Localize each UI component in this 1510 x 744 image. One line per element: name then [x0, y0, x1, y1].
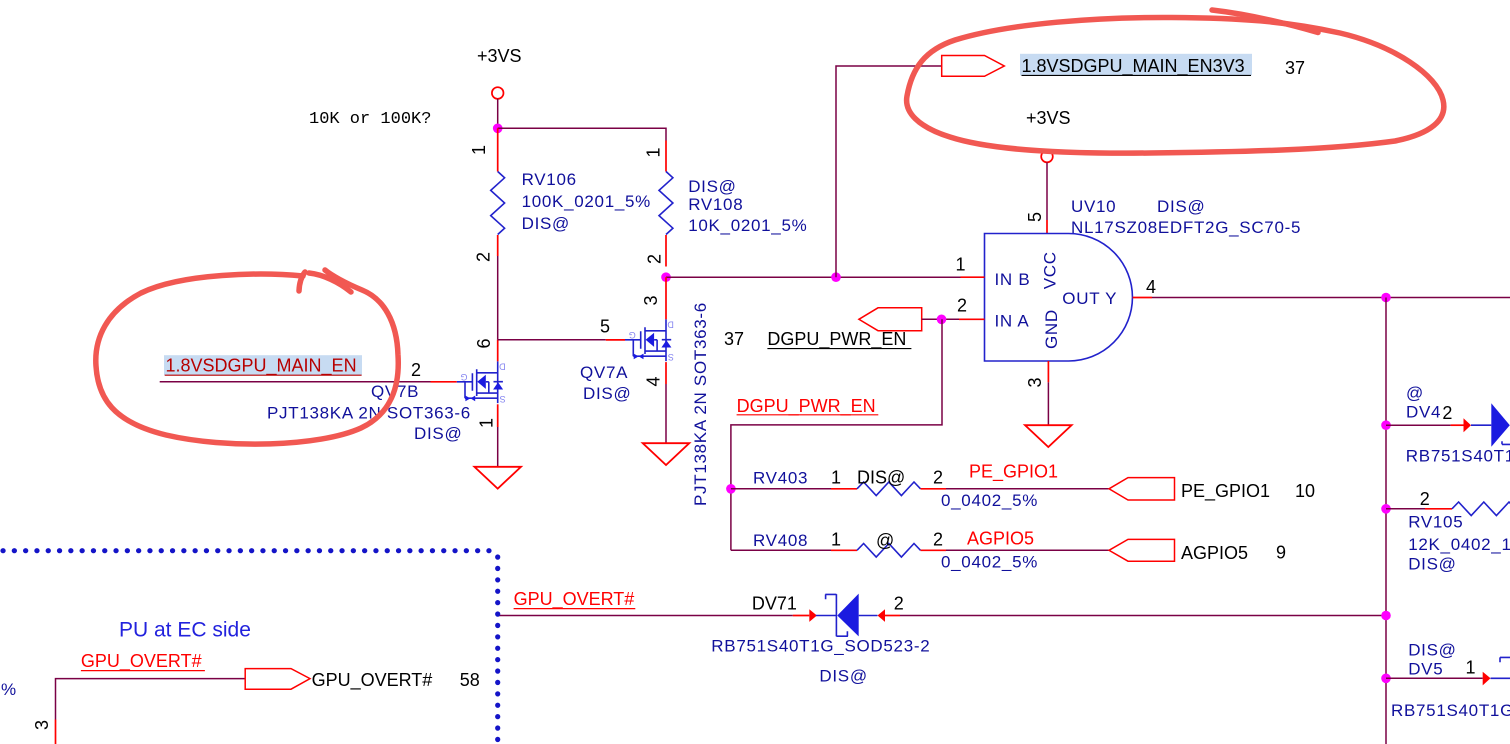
wire — [1047, 382, 1049, 425]
svg-text:DIS@: DIS@ — [1408, 555, 1456, 574]
svg-text:1: 1 — [956, 255, 966, 275]
wire — [498, 128, 666, 140]
svg-text:DV5: DV5 — [1408, 660, 1443, 679]
diode DV71 — [711, 594, 930, 686]
port PE_GPIO1 — [1109, 478, 1315, 502]
svg-text:2: 2 — [957, 296, 967, 316]
annotation tail (left) — [309, 273, 351, 292]
diode DV5 — [1386, 641, 1510, 721]
svg-text:NL17SZ08EDFT2G_SC70-5: NL17SZ08EDFT2G_SC70-5 — [1071, 218, 1301, 237]
svg-text:58: 58 — [460, 670, 480, 690]
svg-text:RB751S40T1G_SOD523-2: RB751S40T1G_SOD523-2 — [1406, 447, 1510, 466]
svg-text:2_5%: 2_5% — [0, 680, 17, 699]
svg-text:DIS@: DIS@ — [857, 468, 905, 488]
svg-text:@: @ — [876, 531, 894, 551]
svg-text:PU at EC side: PU at EC side — [119, 619, 251, 642]
svg-text:2: 2 — [933, 468, 943, 488]
wire OUT net — [1152, 297, 1510, 299]
svg-text:PE_GPIO1: PE_GPIO1 — [1181, 481, 1270, 502]
svg-text:4: 4 — [1146, 277, 1156, 297]
svg-text:UV10: UV10 — [1071, 197, 1116, 216]
blue dotted partition (vertical) — [495, 557, 500, 743]
svg-text:IN B: IN B — [995, 270, 1031, 289]
svg-text:RB751S40T1G_SOD523-2: RB751S40T1G_SOD523-2 — [711, 637, 930, 656]
junction — [831, 272, 841, 282]
blue dotted partition (horizontal) — [3, 548, 498, 553]
svg-text:1.8VSDGPU_MAIN_EN3V3: 1.8VSDGPU_MAIN_EN3V3 — [1022, 56, 1245, 77]
svg-text:2: 2 — [645, 254, 665, 264]
annotation ellipse (left) — [96, 270, 398, 444]
svg-text:IN A: IN A — [995, 312, 1030, 331]
pin 1 IN B — [956, 255, 985, 278]
svg-text:GPU_OVERT#: GPU_OVERT# — [312, 670, 433, 691]
ground — [474, 467, 521, 489]
pin 2 IN A — [957, 296, 985, 320]
svg-text:DIS@: DIS@ — [688, 177, 736, 196]
svg-text:1: 1 — [469, 145, 489, 155]
wire — [497, 99, 499, 126]
net DGPU_PWR_EN label — [737, 396, 879, 417]
wire — [946, 488, 1109, 490]
svg-text:DV4: DV4 — [1406, 403, 1441, 422]
svg-text:RV105: RV105 — [1408, 513, 1463, 532]
wire — [497, 427, 499, 467]
svg-text:2: 2 — [1420, 489, 1430, 509]
resistor R1 RV403 — [731, 462, 1058, 511]
svg-text:2: 2 — [894, 594, 904, 614]
pin 4 OUT — [1133, 277, 1156, 298]
junction — [726, 484, 736, 494]
svg-text:GPU_OVERT#: GPU_OVERT# — [81, 651, 202, 672]
svg-text:2: 2 — [933, 530, 943, 550]
wire — [56, 679, 246, 720]
svg-text:1: 1 — [831, 468, 841, 488]
pin 3 GND — [1025, 361, 1048, 388]
svg-text:PJT138KA 2N SOT363-6: PJT138KA 2N SOT363-6 — [691, 302, 710, 506]
wire gate QV7B — [160, 381, 431, 383]
wire — [731, 319, 942, 550]
wire — [665, 384, 667, 443]
wire — [836, 66, 942, 277]
svg-text:4: 4 — [644, 376, 664, 386]
port 1.8VSDGPU_MAIN_EN3V3 — [942, 54, 1305, 78]
junction — [661, 272, 671, 282]
svg-text:2: 2 — [411, 360, 421, 380]
svg-text:1: 1 — [477, 418, 497, 428]
svg-text:6: 6 — [474, 338, 494, 348]
svg-text:AGPIO5: AGPIO5 — [1181, 543, 1248, 563]
svg-text:1: 1 — [644, 147, 664, 157]
svg-text:RV108: RV108 — [688, 195, 743, 214]
svg-text:GPU_OVERT#: GPU_OVERT# — [514, 589, 635, 610]
svg-text:2: 2 — [1442, 403, 1452, 423]
power +3VS (right) — [1026, 108, 1071, 162]
svg-text:5: 5 — [1025, 212, 1045, 222]
pin 5 — [1025, 212, 1047, 234]
net GPU_OVERT# label (bottom left) — [81, 651, 205, 672]
svg-text:10K or 100K?: 10K or 100K? — [309, 110, 431, 129]
junction — [1381, 674, 1391, 684]
svg-text:DGPU_PWR_EN: DGPU_PWR_EN — [767, 329, 906, 350]
resistor RV108 — [644, 141, 808, 267]
ground — [1025, 425, 1072, 447]
wire — [922, 318, 959, 320]
svg-text:DIS@: DIS@ — [583, 384, 631, 403]
svg-text:RV403: RV403 — [753, 469, 808, 488]
diode DV4 — [1386, 384, 1510, 466]
junction — [937, 315, 947, 325]
wire VCC — [1046, 162, 1048, 220]
svg-text:12K_0402_1%: 12K_0402_1% — [1408, 535, 1510, 554]
wire — [900, 615, 1386, 617]
svg-text:DV71: DV71 — [752, 594, 797, 614]
svg-text:3: 3 — [641, 295, 661, 305]
svg-text:100K_0201_5%: 100K_0201_5% — [522, 192, 651, 211]
port AGPIO5 — [1109, 539, 1286, 563]
wire bus to IN B — [666, 276, 961, 278]
wire to QV7A gate — [498, 339, 625, 341]
port DGPU_PWR_EN (input) — [724, 308, 922, 350]
svg-text:DIS@: DIS@ — [414, 424, 462, 443]
wire main vertical (right) — [1385, 298, 1387, 744]
svg-text:VCC: VCC — [1041, 251, 1060, 289]
svg-text:DIS@: DIS@ — [1408, 641, 1456, 660]
transistor Q2 QV7B — [267, 338, 506, 443]
junction — [1381, 420, 1391, 430]
net GPU_OVERT# label (mid) — [514, 589, 636, 610]
port GPU_OVERT# (output) — [245, 669, 480, 691]
svg-text:3: 3 — [1025, 377, 1045, 387]
svg-text:RV106: RV106 — [522, 170, 577, 189]
resistor RV408 — [731, 529, 1038, 572]
resistor RV105 — [1386, 489, 1510, 574]
svg-text:DIS@: DIS@ — [1157, 197, 1205, 216]
svg-text:5: 5 — [600, 317, 610, 337]
svg-text:GND: GND — [1042, 309, 1061, 349]
junction — [1381, 504, 1391, 514]
svg-text:37: 37 — [724, 329, 744, 349]
svg-text:OUT Y: OUT Y — [1062, 289, 1117, 308]
wire — [497, 256, 499, 340]
svg-text:QV7A: QV7A — [580, 363, 628, 382]
svg-text:PJT138KA 2N SOT363-6: PJT138KA 2N SOT363-6 — [267, 404, 471, 423]
op-amp U1 AND gate UV10 — [985, 197, 1302, 361]
svg-text:DIS@: DIS@ — [819, 667, 867, 686]
junction — [1381, 293, 1391, 303]
svg-text:+3VS: +3VS — [1026, 108, 1071, 128]
svg-text:10: 10 — [1295, 481, 1315, 501]
svg-text:+3VS: +3VS — [477, 46, 522, 66]
annotation ellipse end hook (left) — [299, 272, 305, 291]
svg-text:3: 3 — [32, 720, 52, 730]
annotation scribble (right) — [1212, 10, 1318, 33]
svg-text:DGPU_PWR_EN: DGPU_PWR_EN — [737, 396, 876, 417]
svg-text:9: 9 — [1276, 543, 1286, 563]
junction — [1381, 611, 1391, 621]
svg-text:1: 1 — [831, 530, 841, 550]
pin 3 (bottom left) — [32, 720, 56, 744]
net 1.8VSDGPU_MAIN_EN label — [164, 355, 362, 376]
svg-text:1: 1 — [1466, 658, 1476, 678]
resistor RV106 — [469, 128, 651, 262]
wire — [946, 549, 1109, 551]
svg-text:2: 2 — [474, 252, 494, 262]
svg-text:10K_0201_5%: 10K_0201_5% — [688, 216, 807, 235]
svg-text:0_0402_5%: 0_0402_5% — [941, 491, 1038, 510]
wire GPU_OVERT# — [498, 615, 793, 617]
junction — [493, 124, 503, 134]
ground — [643, 443, 690, 465]
svg-text:RV408: RV408 — [753, 531, 808, 550]
svg-text:AGPIO5: AGPIO5 — [967, 529, 1034, 549]
svg-text:RB751S40T1G_SOD523-2: RB751S40T1G_SOD523-2 — [1391, 701, 1510, 720]
transistor QV7A — [580, 277, 710, 506]
svg-text:PE_GPIO1: PE_GPIO1 — [969, 462, 1058, 483]
svg-text:0_0402_5%: 0_0402_5% — [941, 553, 1038, 572]
svg-text:DIS@: DIS@ — [522, 214, 570, 233]
svg-text:1.8VSDGPU_MAIN_EN: 1.8VSDGPU_MAIN_EN — [166, 356, 357, 377]
power +3VS (left) — [477, 46, 522, 99]
svg-text:@: @ — [1406, 384, 1424, 403]
annotation ellipse (right) — [907, 17, 1444, 153]
svg-text:37: 37 — [1285, 58, 1305, 78]
